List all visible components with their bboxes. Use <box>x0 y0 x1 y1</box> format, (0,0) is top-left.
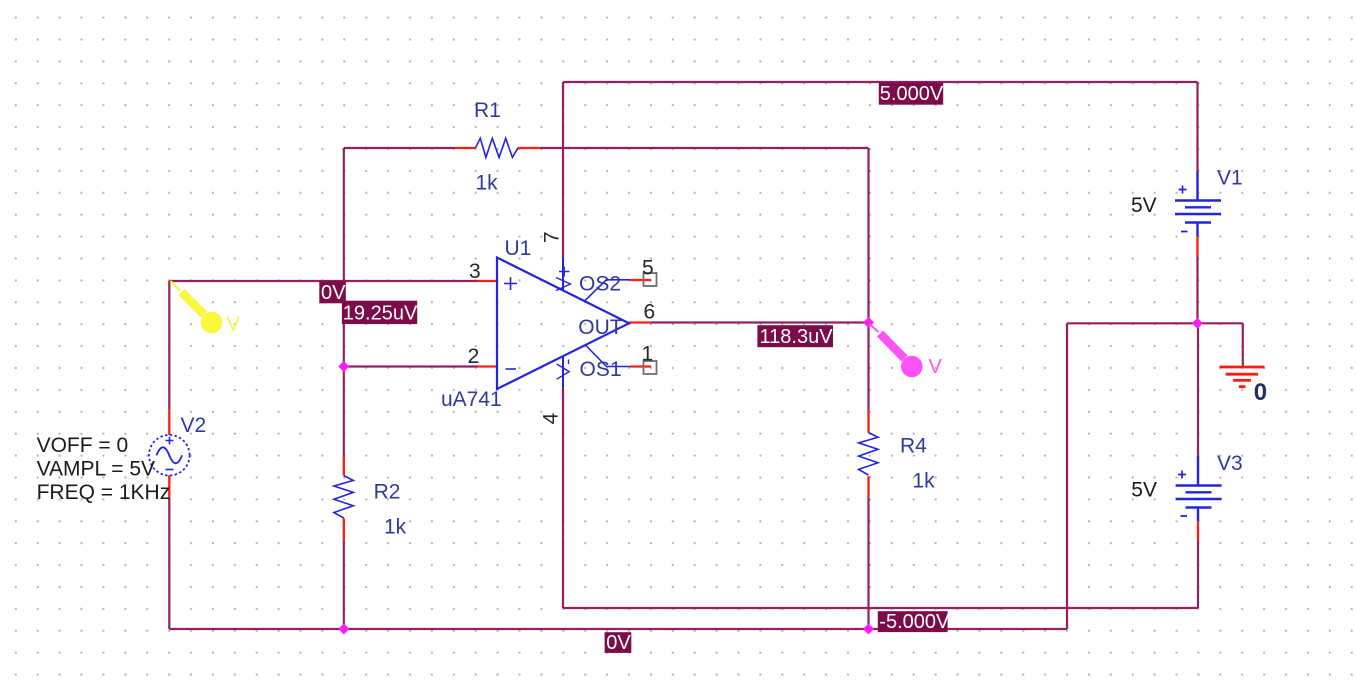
junction node V1/V3/ground <box>1192 318 1203 329</box>
svg-text:V: V <box>227 314 241 336</box>
pin stub op-amp pin 3 <box>477 280 497 282</box>
svg-text:19.25uV: 19.25uV <box>343 303 418 325</box>
svg-text:uA741: uA741 <box>441 388 502 411</box>
pin stub op-amp OUT pin 6 <box>629 321 651 323</box>
pin numbers <box>468 231 656 424</box>
svg-text:4: 4 <box>539 412 562 424</box>
svg-text:-5.000V: -5.000V <box>879 611 950 633</box>
op-amp OS1 connector <box>586 345 631 367</box>
svg-text:V3: V3 <box>1217 452 1243 475</box>
svg-text:VAMPL = 5V: VAMPL = 5V <box>37 457 155 480</box>
svg-text:3: 3 <box>469 260 481 283</box>
svg-text:2: 2 <box>468 345 480 368</box>
component text labels <box>181 99 1243 539</box>
sine source V2 <box>149 435 190 476</box>
resistor R2 <box>334 476 353 518</box>
wire ground node to V3 top <box>1197 323 1199 455</box>
svg-text:7: 7 <box>541 231 564 243</box>
svg-text:6: 6 <box>644 300 656 323</box>
svg-text:R1: R1 <box>474 99 501 122</box>
svg-text:1k: 1k <box>384 516 407 539</box>
svg-text:OS2: OS2 <box>579 273 621 296</box>
svg-text:5V: 5V <box>1131 479 1157 502</box>
op-amp V- power lead pin 4 <box>557 356 570 389</box>
pin stub OS2 pin 5 <box>630 279 651 281</box>
wire V2 plus to pin 3 <box>169 281 477 410</box>
wire node feedback to pin 2 <box>344 365 477 367</box>
svg-text:V2: V2 <box>181 414 207 437</box>
svg-text:1: 1 <box>642 343 654 366</box>
op-amp U1 triangle <box>497 258 629 390</box>
pin stub V2 <box>168 410 170 498</box>
battery V1 <box>1175 171 1221 237</box>
resistor R1 <box>476 138 519 157</box>
svg-text:OUT: OUT <box>578 316 623 339</box>
bias voltage label 5.000V <box>879 82 944 105</box>
svg-text:0V: 0V <box>606 632 631 654</box>
pin stub R2 <box>343 457 345 541</box>
svg-text:U1: U1 <box>505 237 532 260</box>
junction node R2 bottom <box>338 624 349 635</box>
bias voltage label 0V bottom <box>605 632 632 654</box>
wire +5V net top <box>563 82 1198 258</box>
svg-text:R2: R2 <box>374 480 401 503</box>
wire R1 right to output vertical <box>540 148 869 629</box>
pin stub op-amp pin 2 <box>477 365 497 367</box>
svg-text:5.000V: 5.000V <box>880 83 944 105</box>
op-amp minus input mark <box>506 368 517 370</box>
pin stub V1 minus <box>1196 237 1198 257</box>
junction node output <box>863 317 874 328</box>
svg-text:5: 5 <box>642 257 654 280</box>
pin stub R4 <box>867 411 869 498</box>
red pin stubs <box>169 148 1198 540</box>
pin stub R1 <box>455 147 540 149</box>
unconnected terminal square pin 1 <box>644 361 657 374</box>
svg-text:118.3uV: 118.3uV <box>760 326 834 348</box>
svg-text:OS1: OS1 <box>580 358 622 381</box>
svg-text:VOFF = 0: VOFF = 0 <box>37 434 129 457</box>
svg-text:1k: 1k <box>476 172 499 195</box>
wire -5V net pin4 to V3 bottom <box>563 389 1198 608</box>
svg-text:R4: R4 <box>900 435 927 458</box>
resistor R4 <box>859 433 878 476</box>
wire V1 bottom to ground node <box>1196 256 1198 323</box>
svg-text:V1: V1 <box>1217 167 1243 190</box>
pin stub V3 minus <box>1197 521 1199 540</box>
svg-text:1k: 1k <box>912 470 935 493</box>
bias voltage label 0V at pin3 <box>319 281 346 304</box>
op-amp V+ power lead pin 7 <box>556 258 571 291</box>
svg-text:5V: 5V <box>1131 194 1157 217</box>
bias voltage label -5.000V <box>878 611 950 633</box>
bias voltage label 19.25uV <box>342 301 418 325</box>
op-amp OS2 connector <box>585 280 630 301</box>
voltage probe yellow at V2 <box>171 281 241 336</box>
wire 0V net bottom <box>169 323 1243 629</box>
voltage probe pink at output <box>870 324 943 378</box>
wire output pin 6 <box>651 321 869 323</box>
junction node pin2/feedback <box>338 361 349 372</box>
unconnected terminal square pin 5 <box>644 273 657 286</box>
svg-text:0: 0 <box>1254 379 1267 406</box>
black value texts <box>37 194 1157 504</box>
op-amp plus input mark <box>504 277 517 290</box>
svg-text:FREQ = 1KHz: FREQ = 1KHz <box>37 481 171 504</box>
wire R1 left to feedback vertical <box>344 148 455 629</box>
bias voltage label 118.3uV <box>757 325 833 348</box>
pin stub OS1 pin 1 <box>630 365 651 367</box>
ground symbol 0 <box>1220 367 1265 387</box>
battery V3 <box>1176 456 1222 522</box>
svg-text:V: V <box>929 356 943 378</box>
junction node R4 bottom <box>863 624 874 635</box>
